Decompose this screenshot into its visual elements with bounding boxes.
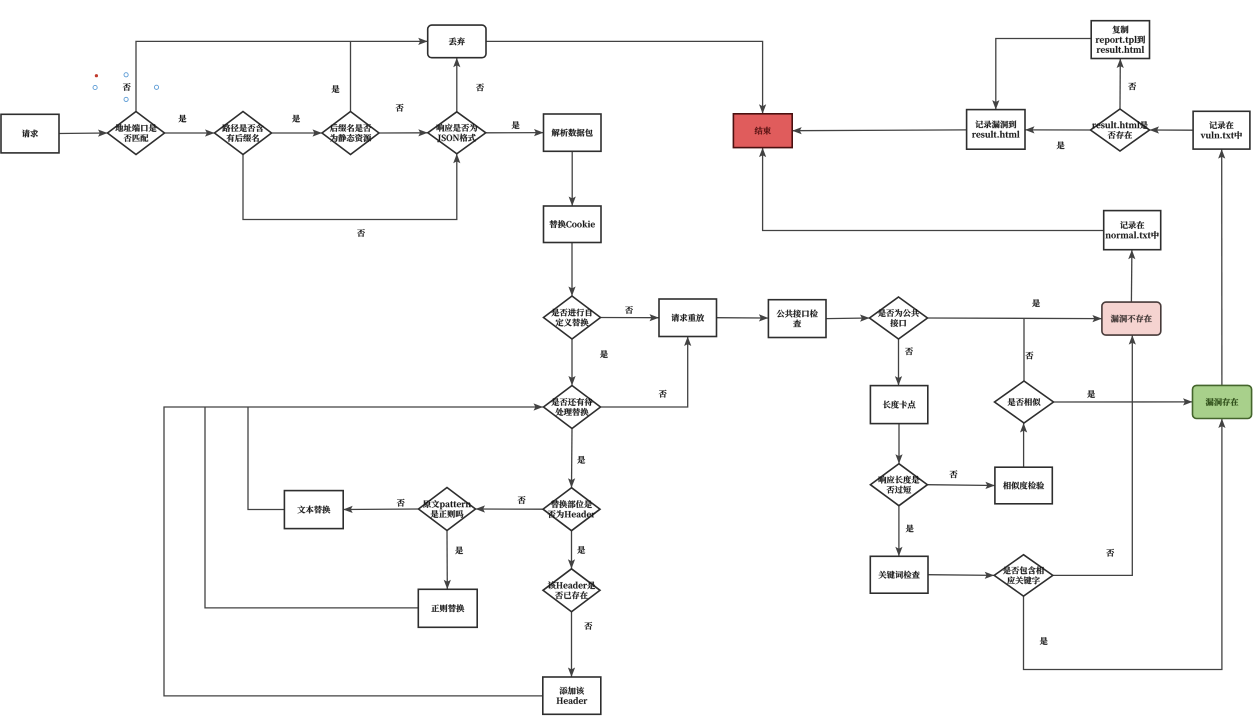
wire 记录漏洞到result.html->结束 <box>792 127 966 134</box>
label 否 <box>518 496 526 504</box>
wire 丢弃->结束 <box>486 41 766 113</box>
wire 后缀名是否为静态资源(是)->丢弃线 <box>350 41 352 112</box>
process 正则替换 <box>418 589 477 627</box>
wire 是否为公共接口(否)->长度卡点 <box>895 339 902 386</box>
terminator 结束 <box>733 114 792 148</box>
decision 原文pattern是正则吗 <box>419 488 476 531</box>
connection point 1 <box>93 85 97 89</box>
decision 是否相似 <box>995 381 1054 423</box>
terminator 漏洞存在 <box>1193 385 1252 418</box>
connection point 2 <box>124 73 128 77</box>
process 记录在vuln.txt中 <box>1193 111 1250 149</box>
wire 漏洞存在->记录在vuln.txt中 <box>1218 149 1225 385</box>
wire 原文pattern是正则吗(是)->正则替换 <box>444 531 451 590</box>
wire 是否进行自定义替换(否)->请求重放 <box>601 314 660 321</box>
terminator 漏洞不存在 <box>1102 302 1161 335</box>
label 否 <box>584 622 592 630</box>
label 否 <box>1128 82 1136 90</box>
wire 响应是否为JSON格式(否)->丢弃 <box>453 58 460 112</box>
decision 是否包含相应关键字 <box>994 555 1053 596</box>
decision 路径是否含有后缀名 <box>215 112 272 155</box>
label 是 <box>600 350 608 358</box>
wire 路径是否含有后缀名(否)->响应是否为JSON格式 <box>243 154 460 220</box>
process 关键词检查 <box>870 556 928 593</box>
wire 解析数据包->替换Cookie <box>569 151 576 206</box>
decision result.html是否存在 <box>1091 109 1150 151</box>
label 否 <box>625 306 633 314</box>
process 请求重放 <box>659 299 717 337</box>
wire 请求->地址端口是否匹配 <box>59 130 108 137</box>
label 否 <box>1026 352 1034 360</box>
label 是 <box>577 546 585 554</box>
wire 记录在vuln.txt中->result.html是否存在 <box>1150 126 1194 133</box>
decision 是否进行自定义替换 <box>544 296 601 339</box>
process 丢弃 <box>428 25 486 58</box>
decision 替换部位是否为Header <box>543 488 600 531</box>
label 是 <box>577 456 585 464</box>
wire 公共接口检查->是否为公共接口 <box>826 315 870 322</box>
process 添加该Header <box>543 677 601 714</box>
label 否 <box>950 470 958 478</box>
process 公共接口检查 <box>768 300 826 338</box>
decision 地址端口是否匹配 <box>108 112 165 155</box>
process 替换Cookie <box>544 206 602 243</box>
connection point 3 <box>124 97 128 101</box>
label 是 <box>1040 637 1048 645</box>
process 长度卡点 <box>870 386 927 424</box>
decision 该Header是否已存在 <box>543 569 600 612</box>
decision 响应长度是否过短 <box>870 464 927 506</box>
decision 后缀名是否为静态资源 <box>322 112 379 155</box>
wire 替换Cookie->是否进行自定义替换 <box>568 243 575 297</box>
label 否 <box>123 83 131 91</box>
wire 路径是否含有后缀名->后缀名是否为静态资源 (是) <box>272 129 323 136</box>
wire 响应长度是否过短(是)->关键词检查 <box>895 506 902 557</box>
wire 是否包含相应关键字(否)->漏洞不存在 <box>1053 335 1136 575</box>
process 相似度检验 <box>995 467 1052 504</box>
wire 是否相似(否)->漏洞不存在线 <box>1023 318 1025 381</box>
decision 响应是否为JSON格式 <box>428 112 486 154</box>
wire 是否包含相应关键字(是)->漏洞存在 <box>1024 419 1226 670</box>
process 记录在normal.txt中 <box>1104 211 1161 250</box>
label 否 <box>905 347 913 355</box>
wire 是否为公共接口(是)->漏洞不存在 <box>928 315 1102 322</box>
label 是 <box>332 85 340 93</box>
label 是 <box>1087 390 1095 398</box>
label 否 <box>659 390 667 398</box>
label 是 <box>906 525 914 533</box>
label 是 <box>1057 141 1065 149</box>
wire 长度卡点->响应长度是否过短 <box>895 424 902 464</box>
wire 响应长度是否过短(否)->相似度检验 <box>927 482 995 489</box>
label 否 <box>476 83 484 91</box>
wire result.html是否存在(否)->复制report.tpl到result.html <box>1117 59 1124 110</box>
label 是 <box>512 121 520 129</box>
wire 响应是否为JSON格式->解析数据包 (是) <box>486 129 544 136</box>
process 文本替换 <box>284 491 343 529</box>
process 解析数据包 <box>544 114 602 151</box>
wire 记录在normal.txt中->结束 <box>759 148 1104 231</box>
wire 文本替换->是否还有待处理替换(回环) <box>248 407 284 510</box>
wire 是否还有待处理替换(是)->替换部位是否为Header <box>568 429 575 488</box>
process 请求 <box>1 114 59 153</box>
process 记录漏洞到result.html <box>967 110 1025 150</box>
wire 是否相似(是)->漏洞存在 <box>1054 398 1193 405</box>
wire 请求重放->公共接口检查 <box>717 314 769 321</box>
wire 替换部位是否为Header(否)->原文pattern是正则吗 <box>476 505 544 512</box>
wire 后缀名是否为静态资源->响应是否为JSON格式 (否) <box>379 129 428 136</box>
wire 关键词检查->是否包含相应关键字 <box>928 572 994 579</box>
label 否 <box>396 104 404 112</box>
wire 替换部位是否为Header(是)->该Header是否已存在 <box>568 531 575 569</box>
label 是 <box>179 115 187 123</box>
decision 是否为公共接口 <box>870 297 928 339</box>
label 是 <box>455 546 463 554</box>
wire 是否进行自定义替换(是)->是否还有待处理替换 <box>568 339 575 386</box>
node marker red dot <box>95 74 98 77</box>
label 否 <box>397 499 405 507</box>
wire 地址端口是否匹配(否)->丢弃 <box>136 38 428 112</box>
wire 漏洞不存在->记录在normal.txt中 <box>1128 250 1135 302</box>
wire 相似度检验->是否相似 <box>1020 423 1027 467</box>
label 是 <box>292 115 300 123</box>
wire result.html是否存在(是)->记录漏洞到result.html <box>1025 126 1091 133</box>
wire 正则替换->是否还有待处理替换(回环) <box>205 407 418 608</box>
wire 地址端口是否匹配->路径是否含有后缀名 (是) <box>165 129 215 136</box>
decision 是否还有待处理替换 <box>544 386 601 429</box>
label 是 <box>1032 299 1040 307</box>
connection point 4 <box>154 85 158 89</box>
wire 复制report.tpl到result.html->记录漏洞到result.html <box>992 39 1091 110</box>
wire 该Header是否已存在(否)->添加该Header <box>568 612 575 677</box>
process 复制report.tpl到result.html <box>1091 21 1149 59</box>
wire 添加该Header->是否还有待处理替换(回环) <box>164 403 543 696</box>
wire 是否还有待处理替换(否)->请求重放 <box>601 337 692 408</box>
label 否 <box>357 229 365 237</box>
label 否 <box>1106 549 1114 557</box>
wire 原文pattern是正则吗(否)->文本替换 <box>343 506 418 513</box>
